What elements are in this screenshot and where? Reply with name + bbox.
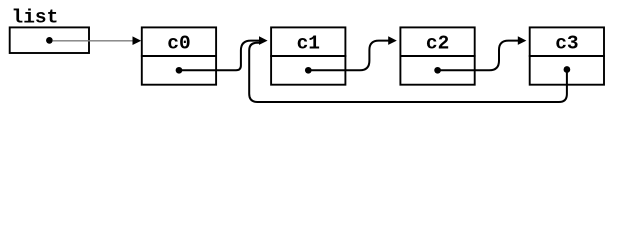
node c1 box — [271, 27, 345, 84]
node c2 box — [400, 27, 474, 84]
svg-text:c2: c2 — [426, 33, 449, 55]
arrowhead into c2 — [388, 36, 397, 45]
svg-text:c3: c3 — [555, 33, 578, 55]
wire c2 to c3 — [438, 41, 519, 71]
wire c3 wrap-around to c1 — [249, 43, 567, 102]
node c1 pointer dot — [305, 67, 312, 74]
node c0 pointer dot — [176, 67, 183, 74]
node c2 pointer dot — [434, 67, 441, 74]
node list pointer dot — [46, 37, 53, 44]
wire list to c0 — [53, 40, 134, 42]
node c0 divider — [141, 55, 217, 57]
node c0 box — [142, 27, 216, 84]
node c2 divider — [400, 55, 476, 57]
wire c1 to c2 — [308, 41, 389, 71]
svg-text:c1: c1 — [297, 33, 320, 55]
node c3 box — [530, 27, 604, 84]
svg-text:c0: c0 — [167, 33, 190, 55]
wire c0 to c1 — [179, 41, 260, 71]
node c3 divider — [529, 55, 605, 57]
node c1 divider — [270, 55, 346, 57]
arrowhead into c1 — [259, 36, 268, 45]
svg-text:list: list — [12, 7, 59, 29]
arrowhead into c3 — [518, 36, 527, 45]
node c3 pointer dot — [564, 66, 571, 73]
arrowhead into c0 — [133, 36, 142, 45]
node list box — [10, 27, 89, 53]
